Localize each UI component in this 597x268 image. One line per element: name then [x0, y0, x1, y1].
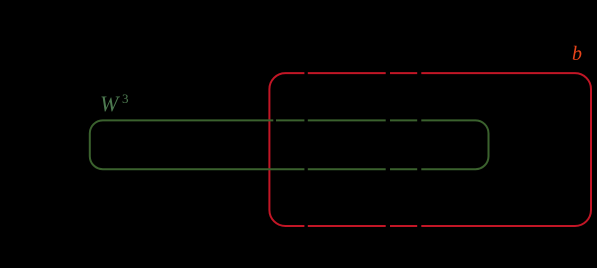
- black bar gap 1: [304, 60, 307, 240]
- black notch on green top edge: [273, 116, 276, 124]
- black bar gap 2: [386, 60, 390, 240]
- label W3 superscript: [122, 91, 129, 107]
- black bar gap 3: [417, 60, 421, 240]
- label b: [572, 43, 582, 66]
- label W3: [100, 91, 118, 117]
- green box W3: [90, 120, 489, 169]
- red box b: [269, 73, 591, 226]
